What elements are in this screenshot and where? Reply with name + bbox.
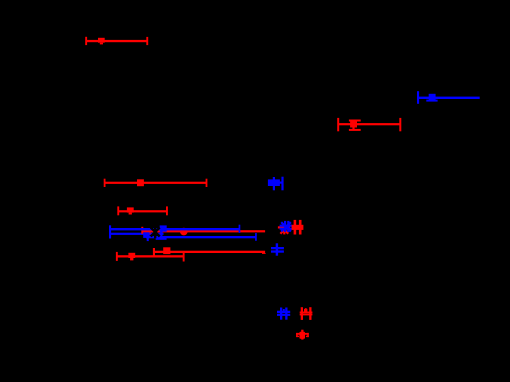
- red line LR (y 231.3): [141, 227, 265, 234]
- row8b red: [116, 252, 185, 262]
- red double-plus at (297.5,227.3): [292, 220, 304, 235]
- blue square on L1: [160, 225, 167, 231]
- row1 marker (square + stub): [98, 38, 105, 43]
- row8a tail fragment: [262, 252, 266, 255]
- black star over cluster: [151, 226, 160, 239]
- row4 red point: [104, 179, 208, 187]
- row8c blue double plus: [271, 243, 284, 255]
- red square near 147: [145, 228, 151, 234]
- blue line L2 (y 233.8): [110, 233, 164, 235]
- red circle marker under lines: [180, 228, 188, 236]
- blue line L3 (y 237.1): [146, 236, 256, 238]
- cluster7: shared left cap: [109, 225, 164, 238]
- row6 red point: [117, 206, 168, 215]
- row8a red: [153, 247, 265, 256]
- blue line L1 (y 229.2): [110, 225, 257, 241]
- row10 red small marker at (302.3,334.7): [296, 330, 309, 340]
- row9 blue hash at (283.6,313.5): [277, 308, 290, 320]
- row3 red point: [337, 118, 401, 131]
- blue star cluster at (286.4,227.2): double-plus + X: [280, 221, 293, 232]
- blue square at (146.4,235): [143, 232, 150, 238]
- row2 blue point: [417, 91, 480, 104]
- row9 red H-hash at (306,313.5): [300, 307, 313, 320]
- row5 blue point: [268, 177, 284, 191]
- row1 red point: x error bar: [85, 37, 148, 45]
- red asterisk under blue star: [278, 224, 290, 235]
- blue vertical bar + bottom cap: [160, 231, 162, 238]
